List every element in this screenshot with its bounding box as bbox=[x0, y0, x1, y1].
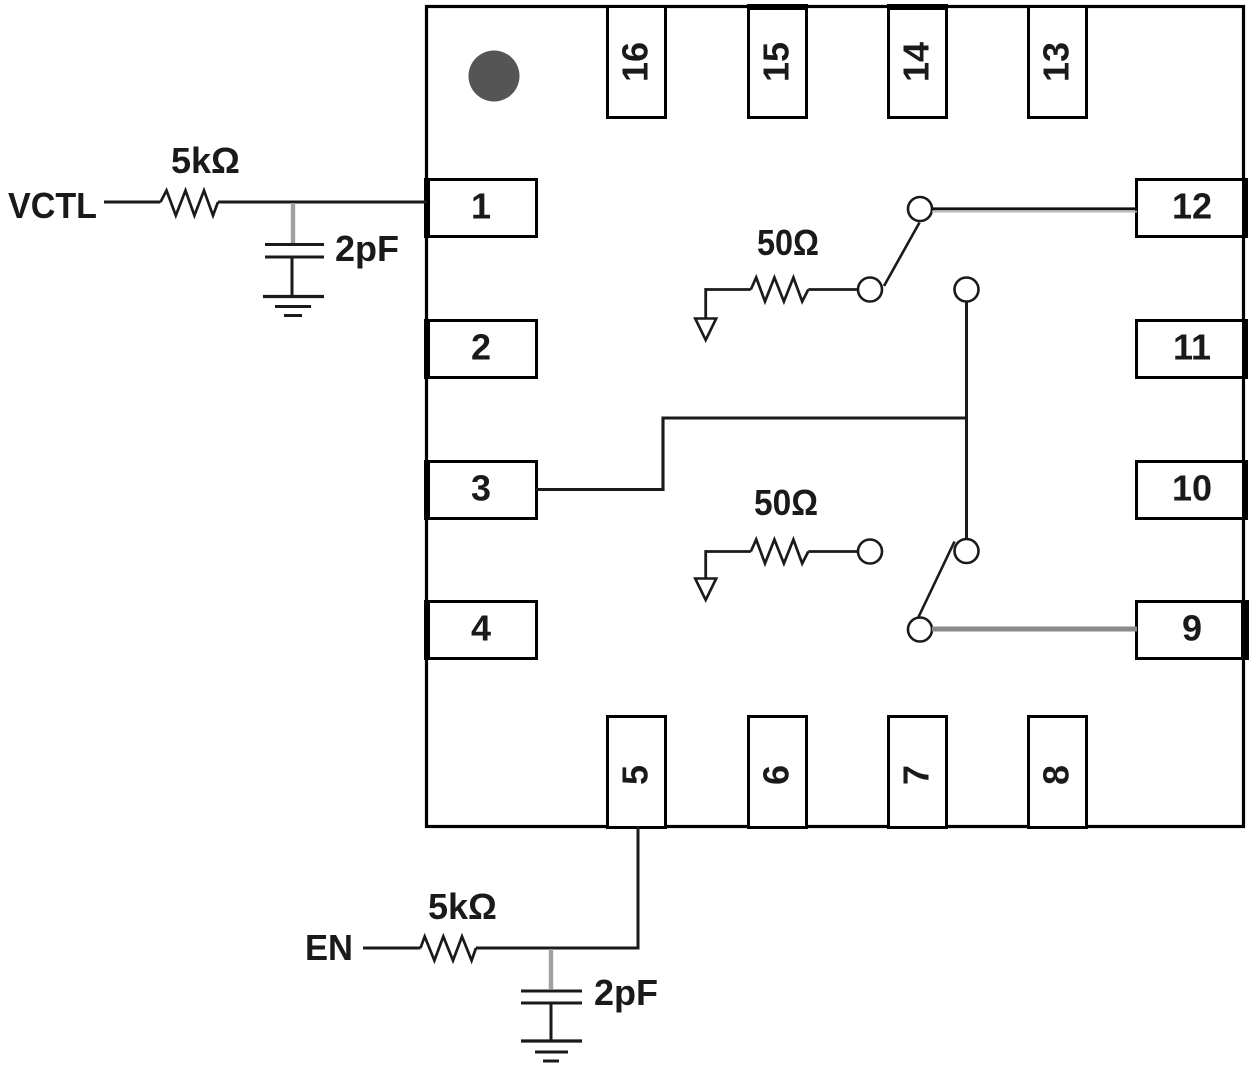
pin 16 bbox=[608, 7, 666, 118]
resistor R3 50Ohm termination bbox=[706, 278, 858, 319]
svg-text:2pF: 2pF bbox=[594, 972, 658, 1013]
pin 12 bbox=[1137, 178, 1249, 238]
label EN bbox=[305, 927, 353, 968]
svg-text:50Ω: 50Ω bbox=[754, 482, 818, 523]
pin 1 indicator dot bbox=[469, 51, 520, 102]
ground GND2 bbox=[521, 1041, 582, 1061]
svg-text:3: 3 bbox=[471, 468, 491, 509]
wire SW1 pole to pin 12 bbox=[932, 209, 1137, 212]
switch SW2 throw contact to R4 bbox=[858, 540, 882, 564]
switch SW2 throw contact to pin3 net bbox=[955, 539, 979, 563]
pin 8 bbox=[1029, 717, 1087, 828]
svg-text:10: 10 bbox=[1172, 468, 1212, 509]
svg-text:5kΩ: 5kΩ bbox=[171, 140, 240, 181]
wire vertical pin 3 net to switch contacts bbox=[965, 301, 968, 540]
resistor R2 5kOhm bbox=[421, 937, 477, 961]
svg-text:2pF: 2pF bbox=[335, 228, 399, 269]
wire node to capacitor C1 bbox=[291, 203, 295, 243]
svg-text:16: 16 bbox=[615, 42, 656, 82]
svg-text:8: 8 bbox=[1036, 765, 1077, 785]
pin 7 bbox=[889, 717, 947, 828]
pin 9 bbox=[1137, 600, 1250, 660]
pin 15 bbox=[747, 4, 808, 118]
svg-text:13: 13 bbox=[1036, 42, 1077, 82]
svg-text:50Ω: 50Ω bbox=[757, 222, 819, 263]
switch SW1 throw contact to R3 bbox=[858, 278, 882, 302]
pin 3 bbox=[424, 460, 537, 520]
svg-text:VCTL: VCTL bbox=[8, 185, 97, 226]
svg-text:12: 12 bbox=[1172, 186, 1212, 227]
switch SW2 pole contact bbox=[908, 618, 932, 642]
switch SW1 arm bbox=[884, 223, 920, 287]
pin 1 bbox=[424, 178, 537, 238]
svg-text:5kΩ: 5kΩ bbox=[428, 886, 497, 927]
capacitor C2 2pF bbox=[521, 991, 582, 1040]
pin 10 bbox=[1137, 460, 1249, 520]
wire EN to R2 bbox=[363, 947, 421, 950]
svg-text:9: 9 bbox=[1182, 608, 1202, 649]
label VCTL bbox=[8, 185, 97, 226]
ground arrow GND3 bbox=[695, 319, 716, 341]
svg-text:7: 7 bbox=[896, 765, 937, 785]
label R3 value 50Ohm bbox=[757, 222, 819, 263]
svg-text:14: 14 bbox=[896, 42, 937, 82]
label C1 value 2pF bbox=[335, 228, 399, 269]
capacitor C1 2pF bbox=[265, 245, 324, 297]
resistor R1 5kOhm bbox=[161, 191, 219, 216]
svg-text:11: 11 bbox=[1173, 327, 1211, 368]
pin 5 bbox=[608, 717, 666, 828]
svg-text:6: 6 bbox=[756, 765, 797, 785]
label R4 value 50Ohm bbox=[754, 482, 818, 523]
label R1 value 5kOhm bbox=[171, 140, 240, 181]
switch SW1 throw contact to pin3 net bbox=[955, 278, 979, 302]
wire R2 to pin 5 bbox=[476, 826, 638, 948]
svg-text:1: 1 bbox=[471, 186, 491, 227]
wire node to capacitor C2 bbox=[549, 949, 553, 989]
pin 13 bbox=[1029, 7, 1087, 118]
pin 6 bbox=[749, 717, 807, 828]
wire VCTL to R1 bbox=[104, 201, 161, 204]
pin 4 bbox=[424, 600, 537, 660]
pin 14 bbox=[887, 4, 948, 118]
wire pin 3 net bbox=[536, 418, 967, 490]
ground arrow GND4 bbox=[695, 579, 716, 601]
switch SW2 arm bbox=[919, 542, 955, 618]
label R2 value 5kOhm bbox=[428, 886, 497, 927]
label C2 value 2pF bbox=[594, 972, 658, 1013]
svg-text:EN: EN bbox=[305, 927, 353, 968]
pin 2 bbox=[424, 319, 537, 379]
wire SW2 pole to pin 9 bbox=[932, 627, 1137, 632]
wire R1 to pin 1 bbox=[218, 201, 427, 204]
ground GND1 bbox=[263, 297, 324, 316]
svg-text:4: 4 bbox=[471, 608, 491, 649]
pin 11 bbox=[1137, 319, 1249, 379]
resistor R4 50Ohm termination bbox=[706, 540, 858, 579]
IC package body U1 bbox=[427, 7, 1244, 827]
svg-text:2: 2 bbox=[471, 327, 491, 368]
switch SW1 pole contact bbox=[908, 197, 932, 221]
svg-text:5: 5 bbox=[615, 765, 656, 785]
svg-text:15: 15 bbox=[756, 42, 797, 82]
